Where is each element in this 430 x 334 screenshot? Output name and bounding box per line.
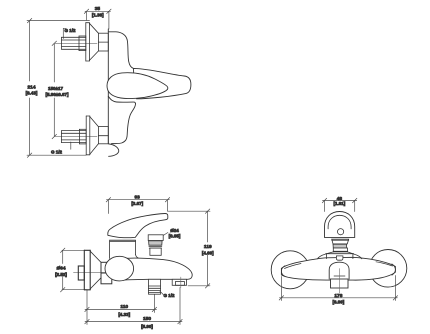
handle lever side — [108, 213, 168, 237]
svg-text:93: 93 — [135, 194, 141, 200]
svg-text:35: 35 — [95, 6, 101, 12]
bottom hex nut — [98, 127, 108, 144]
shower outlet stem — [149, 279, 161, 294]
bottom escutcheon cone — [90, 117, 99, 155]
left bar tip cap — [281, 266, 285, 277]
body neck top outline — [108, 32, 133, 69]
handle screw circle — [338, 229, 344, 235]
svg-text:G 1/2: G 1/2 — [164, 293, 176, 298]
handle tombstone front — [325, 212, 355, 238]
dim Ø24 leader — [163, 233, 168, 236]
body underside curve — [108, 96, 135, 103]
dim 35 dimension line — [84, 9, 111, 29]
wall escutcheon disc — [84, 250, 90, 289]
diverter knob gray band — [149, 241, 163, 245]
top hex nut — [98, 33, 108, 51]
svg-text:G 1/2: G 1/2 — [65, 28, 77, 33]
svg-text:178: 178 — [334, 293, 342, 299]
svg-text:[1.38]: [1.38] — [92, 12, 104, 17]
dim Ø64 dimension line — [61, 248, 87, 292]
dim 178 text — [330, 293, 347, 298]
dim 119 dimension line — [168, 209, 211, 288]
body wall face line — [107, 29, 109, 144]
handle knob egg — [107, 73, 168, 99]
svg-text:[2.52]: [2.52] — [55, 272, 67, 277]
svg-text:[0.95]: [0.95] — [169, 233, 181, 238]
svg-text:150: 150 — [143, 316, 151, 322]
handle grip capsule — [134, 68, 191, 98]
right bar tip cap — [392, 264, 396, 275]
left flange circle — [271, 251, 309, 289]
dim 110 dimension line — [85, 295, 157, 313]
diverter knob front — [336, 256, 343, 260]
svg-text:150±17: 150±17 — [48, 86, 63, 91]
escutcheon cone side — [90, 251, 101, 289]
side view centerline — [74, 272, 114, 274]
centerline bottom inlet — [54, 136, 97, 138]
svg-text:G 1/2: G 1/2 — [51, 150, 63, 155]
svg-text:[1.81]: [1.81] — [334, 201, 346, 206]
aerator box front — [331, 279, 349, 288]
dim 178 dimension line — [279, 276, 397, 301]
spout aerator — [172, 277, 186, 288]
diverter knob cap — [148, 235, 163, 241]
mixer body / spout — [120, 258, 192, 280]
svg-text:[8.43]: [8.43] — [26, 91, 38, 96]
top escutcheon cone — [89, 23, 98, 60]
svg-text:[5.90]: [5.90] — [141, 324, 153, 329]
diverter knob base — [150, 248, 161, 255]
body lower S outline — [112, 104, 136, 144]
spout inner lines — [334, 275, 345, 277]
right flange circle — [369, 249, 407, 287]
svg-text:[6.99]: [6.99] — [333, 300, 345, 305]
right bar inner line — [376, 262, 393, 266]
diverter knob rings — [149, 247, 162, 249]
svg-text:[3.67]: [3.67] — [131, 201, 143, 206]
bottom body lobe — [108, 144, 118, 157]
svg-text:119: 119 — [204, 244, 212, 250]
svg-text:Ø24: Ø24 — [170, 228, 179, 233]
svg-text:Ø64: Ø64 — [56, 266, 65, 272]
gray ring front — [333, 244, 347, 248]
bottom inlet nipple tube — [62, 129, 87, 144]
body bar — [281, 257, 395, 280]
left bar inner line — [285, 264, 302, 269]
white ring front — [333, 248, 347, 252]
cartridge collar — [110, 240, 138, 258]
svg-text:214: 214 — [27, 84, 35, 90]
cartridge collar front — [332, 239, 349, 244]
dim 93 dimension line — [106, 198, 170, 214]
svg-text:[4.33]: [4.33] — [118, 312, 130, 317]
svg-text:[5.90±0.67]: [5.90±0.67] — [46, 92, 69, 97]
escutcheon flare front — [318, 252, 362, 259]
union nut side — [101, 262, 112, 284]
handle inner arch — [328, 215, 351, 229]
bottom escutcheon disc — [86, 116, 90, 155]
svg-text:110: 110 — [120, 304, 128, 310]
dim 46 dimension line — [322, 198, 357, 211]
body end dome — [105, 256, 134, 281]
dim 150±17 dimension line — [52, 41, 56, 139]
svg-text:[4.69]: [4.69] — [202, 250, 214, 255]
top inlet nipple tube — [62, 36, 86, 51]
dim 150 dimension line — [85, 288, 182, 325]
wall tube stub — [78, 266, 84, 280]
centerline top inlet — [54, 42, 97, 44]
aerator centerline — [338, 269, 340, 294]
spout arch front — [329, 262, 349, 279]
top escutcheon disc — [86, 23, 90, 61]
dim 214 dimension line — [27, 18, 90, 157]
